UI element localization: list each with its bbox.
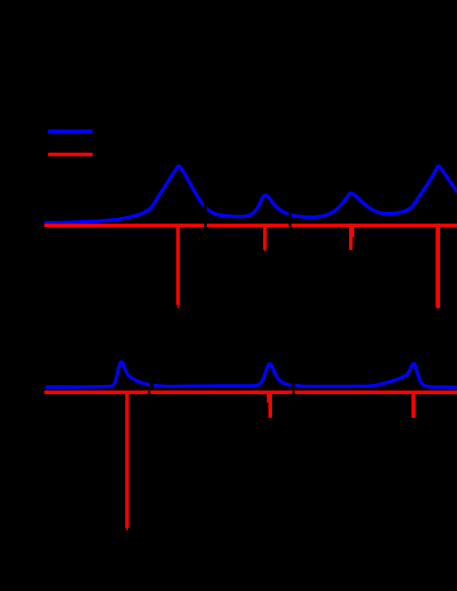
bottom panel blue spectrum curve xyxy=(46,362,457,387)
legend line 1 (blue spectrum sample) xyxy=(48,130,92,134)
bottom panel red baseline xyxy=(44,390,457,394)
top red stick 3a xyxy=(349,224,352,250)
black overlay rect cutting blue tail 2 xyxy=(291,377,295,389)
top red stick 2 thin tail xyxy=(264,245,265,251)
top red stick 1 thin tail xyxy=(177,300,178,308)
black overlay rect cutting blue tail 1 xyxy=(150,377,154,389)
top red stick 3b (shorter, offset right) xyxy=(352,224,355,238)
black overlay stick notching red (x=149) xyxy=(148,392,151,397)
top red stick 1 xyxy=(176,224,180,305)
bottom red stick 1 xyxy=(125,391,129,529)
top red stick 4 thin tail xyxy=(437,302,438,309)
bottom red stick 2b xyxy=(268,391,272,418)
top red stick 4 (double) xyxy=(436,224,440,308)
bottom red stick 3 xyxy=(411,391,415,418)
legend line 2 (red stick sample) xyxy=(48,153,92,157)
top panel blue broadened spectrum curve xyxy=(44,166,457,223)
top red stick 2 xyxy=(263,224,267,250)
black overlay stick top B xyxy=(289,205,292,231)
bottom red stick 2a (short, offset left) xyxy=(267,391,269,403)
black overlay stick notching red (x=293) xyxy=(292,392,295,397)
bottom red stick 1 thin tail xyxy=(126,524,128,530)
black overlay stick top A xyxy=(204,196,207,231)
top panel red baseline xyxy=(44,224,457,227)
